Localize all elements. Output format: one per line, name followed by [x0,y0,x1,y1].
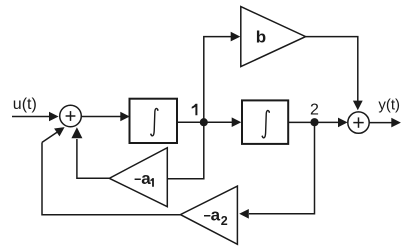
wire X2 to summer S2 [288,118,347,128]
amplifier b [241,7,306,67]
integral sign in X2 [262,111,270,138]
node 2 dot [310,118,318,126]
amplifier -a2 [180,186,237,244]
wire S2 to output y(t) [369,118,401,128]
summing junction S2 [348,112,369,133]
svg-text:2: 2 [310,102,319,119]
wire node1 up to amplifier b [204,32,241,122]
wire node1 down to amplifier -a1 [168,122,204,179]
wire -a1 output up into summer S1 [71,127,109,178]
amplifier -a1 [109,148,167,207]
wire S1 to integrator X1 [81,112,130,122]
label -a2 [204,215,210,217]
svg-text:2: 2 [221,214,228,228]
svg-text:a: a [141,169,151,188]
wire -a2 output left and up into summer S1 [42,127,180,215]
node 1 dot [200,118,208,126]
wire b output down to summer S2 [306,37,363,111]
integral sign in X1 [150,109,158,136]
label 1 [192,104,198,115]
svg-text:b: b [256,28,266,47]
label -a1 [135,179,141,181]
wire input u(t) to summer S1 [12,112,59,122]
summing junction S1 [60,105,82,127]
wire X1 to X2 [177,117,241,127]
integrator box X1 [130,99,178,143]
wire node2 down to amplifier -a2 [239,122,314,218]
svg-text:y(t): y(t) [378,96,400,113]
svg-text:a: a [211,205,221,224]
integrator box X2 [242,100,288,143]
svg-text:u(t): u(t) [13,96,37,113]
